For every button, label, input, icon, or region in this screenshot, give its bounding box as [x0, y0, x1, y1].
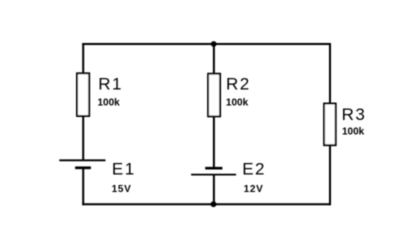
svg-text:100k: 100k: [226, 97, 249, 108]
battery E2 negative plate: [205, 167, 222, 170]
resistor R1: [77, 73, 89, 116]
battery E1 positive plate: [59, 159, 105, 161]
wire E2 to bottom: [213, 175, 215, 206]
wire R1 to E1: [82, 116, 84, 160]
battery E1 negative plate: [75, 166, 91, 169]
svg-text:R2: R2: [226, 74, 251, 93]
wire bottom-right segment: [214, 203, 331, 205]
wire right branch upper: [329, 43, 331, 104]
node top junction: [211, 41, 217, 47]
wire R2 to E2: [213, 116, 215, 168]
svg-text:100k: 100k: [342, 126, 365, 137]
node bottom junction: [211, 201, 217, 207]
svg-text:E1: E1: [112, 160, 136, 179]
svg-text:R1: R1: [98, 74, 123, 93]
wire R3 to bottom: [329, 145, 331, 205]
svg-text:12V: 12V: [244, 184, 264, 195]
resistor R3: [324, 104, 336, 146]
svg-text:100k: 100k: [98, 97, 121, 108]
wire bottom-left segment: [82, 203, 214, 205]
wire E1 to bottom: [82, 168, 84, 205]
wire middle branch upper: [213, 44, 215, 74]
battery E2 positive plate: [191, 174, 236, 176]
wire top-right segment: [214, 43, 331, 45]
wire left branch upper: [82, 43, 84, 73]
svg-text:E2: E2: [242, 160, 266, 179]
svg-text:15V: 15V: [112, 184, 132, 195]
svg-text:R3: R3: [342, 105, 367, 124]
wire top-left segment: [82, 43, 214, 45]
resistor R2: [208, 74, 220, 117]
